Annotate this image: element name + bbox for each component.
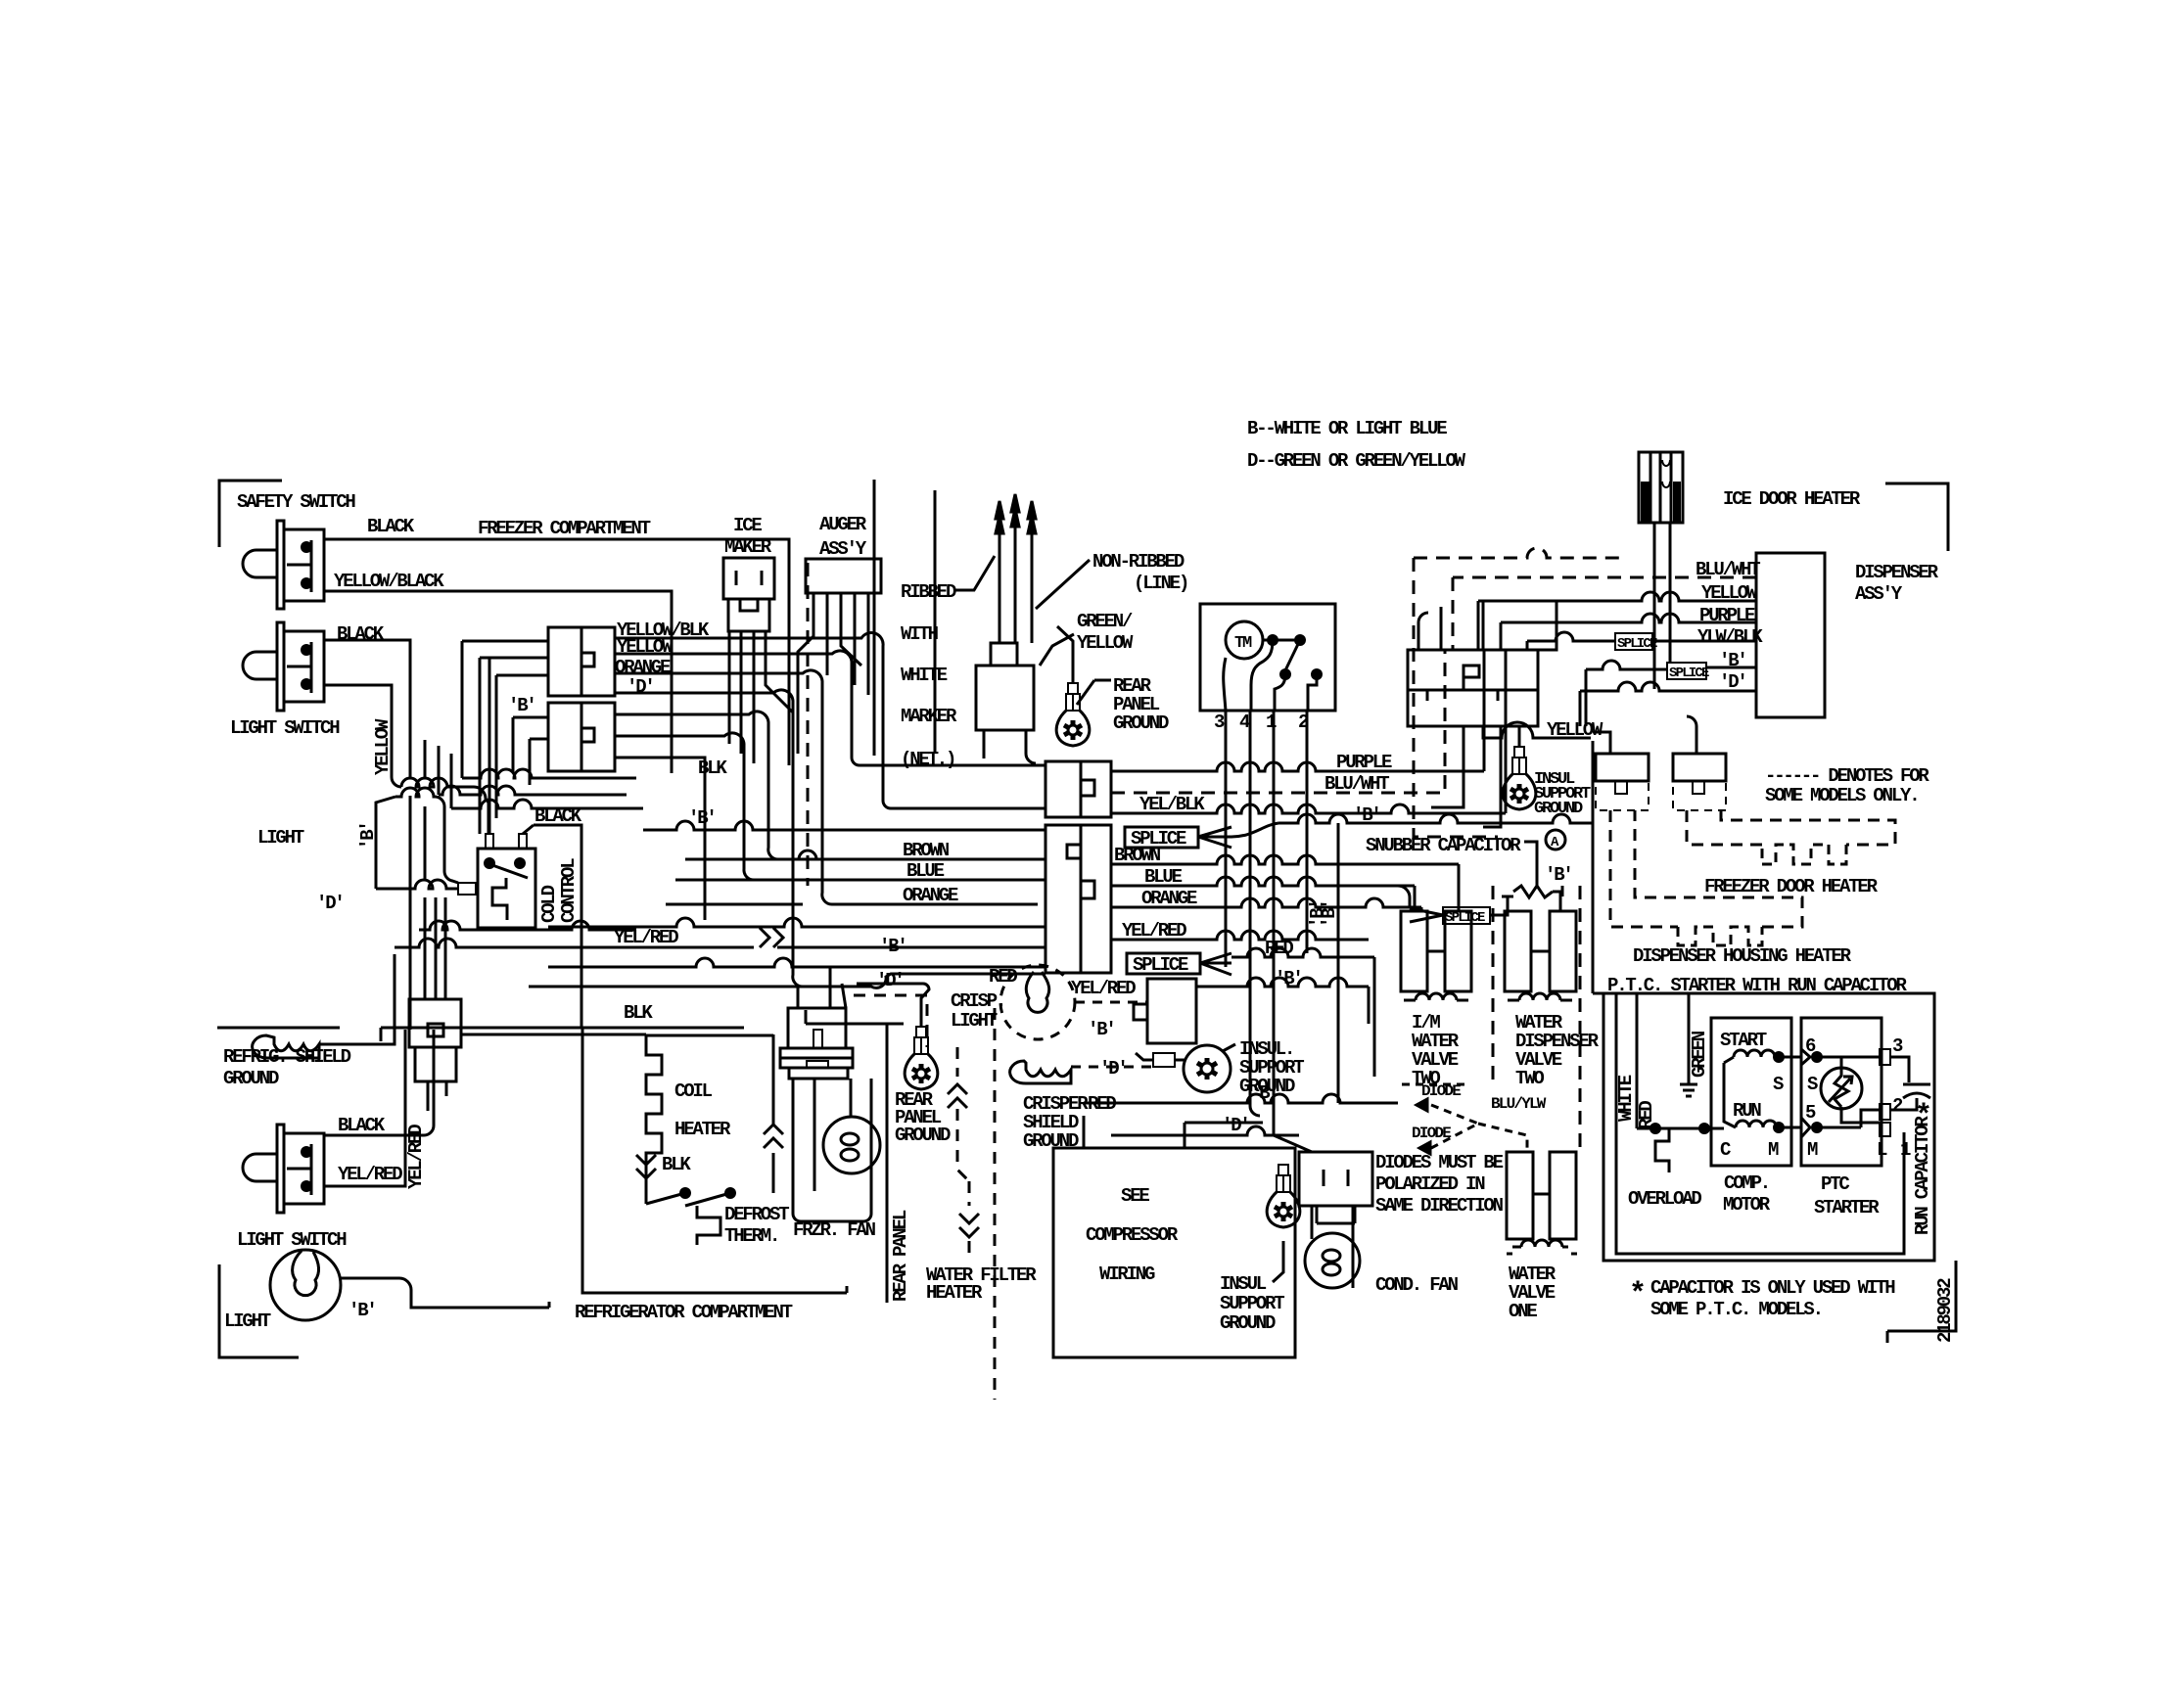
label GREEN (vertical) (1689, 1031, 1710, 1078)
label 6 (1805, 1035, 1816, 1057)
dashed dispenser loop (1414, 548, 1625, 837)
label RED (vertical ptc) (1636, 1101, 1657, 1129)
center connector upper (1046, 761, 1111, 817)
label INSUL (bottom) (1220, 1273, 1267, 1295)
label RUN (1733, 1100, 1761, 1122)
svg-text:BLACK: BLACK (337, 623, 385, 645)
svg-text:'D': 'D' (627, 676, 654, 698)
label GROUND (refrig shield) (223, 1068, 279, 1089)
svg-text:ORANGE: ORANGE (903, 885, 958, 906)
label YEL/RED (left) (614, 927, 678, 948)
crisp connector (1134, 979, 1196, 1043)
svg-text:TM: TM (1234, 634, 1252, 653)
label BLACK (light switch) (337, 623, 385, 645)
wire connector C to coil heater (461, 1034, 646, 1036)
svg-text:------ DENOTES FOR: ------ DENOTES FOR (1765, 765, 1929, 787)
top center connector wires (984, 730, 1036, 763)
wire BLUE right (1111, 877, 1415, 911)
label BROWN (right) (1114, 845, 1161, 866)
svg-text:COMPRESSOR: COMPRESSOR (1086, 1224, 1179, 1246)
insul support ground (center) (1136, 1044, 1235, 1092)
svg-text:BLK: BLK (662, 1154, 691, 1175)
right connector top wires (1418, 607, 1441, 650)
TM circle (1226, 621, 1263, 659)
label SEE (1121, 1185, 1149, 1207)
svg-text:GROUND: GROUND (223, 1068, 279, 1089)
wire 'B' to dispenser (1586, 661, 1756, 669)
i/m water valve two (1401, 911, 1471, 1000)
wire yellow right mid (1483, 722, 1591, 747)
svg-text:BLACK: BLACK (338, 1115, 386, 1136)
label GROUND (rpg1) (1113, 712, 1169, 734)
svg-text:YEL/RED: YEL/RED (1122, 920, 1186, 942)
run capacitor (1890, 1057, 1930, 1110)
wire YELLOW run (615, 651, 1046, 765)
svg-text:COMP.: COMP. (1724, 1172, 1769, 1194)
wire PURPLE to dispenser (1501, 614, 1756, 650)
label 'D' (left area) (316, 893, 344, 914)
wire PURPLE run (1111, 650, 1484, 771)
svg-text:YELLOW: YELLOW (1077, 632, 1134, 654)
label SHIELD (1023, 1112, 1079, 1133)
svg-text:'D': 'D' (316, 893, 344, 914)
label STARTER (1814, 1197, 1880, 1218)
label COMP. (1724, 1172, 1769, 1194)
label S (ptc) (1807, 1074, 1818, 1095)
label NON-RIBBED (1092, 551, 1185, 573)
svg-text:TWO: TWO (1515, 1068, 1544, 1089)
svg-text:HEATER: HEATER (926, 1282, 983, 1304)
auger wires (798, 593, 868, 754)
svg-text:DIODES MUST BE: DIODES MUST BE (1375, 1152, 1504, 1173)
label MOTOR (1723, 1194, 1771, 1216)
svg-text:REAR PANEL: REAR PANEL (890, 1210, 911, 1302)
svg-text:COIL: COIL (674, 1080, 713, 1102)
svg-text:BLUE: BLUE (906, 860, 945, 882)
label MAKER (724, 536, 772, 558)
right connector main (1408, 650, 1538, 726)
rear panel line (878, 1024, 904, 1303)
ptc thermistor (1821, 1057, 1882, 1123)
svg-text:INSUL: INSUL (1220, 1273, 1267, 1295)
wire stubs into connector 1 (462, 641, 548, 834)
label ASS'Y (819, 538, 867, 560)
label 'B' (vertical, left) (357, 822, 379, 850)
svg-text:WHITE: WHITE (901, 665, 948, 686)
label COMPRESSOR (1086, 1224, 1179, 1246)
wire to splice5 (1398, 886, 1508, 915)
label LIGHT SWITCH (refrigerator) (237, 1229, 347, 1251)
svg-text:LIGHT: LIGHT (257, 827, 304, 849)
svg-text:(LINE): (LINE) (1134, 573, 1187, 594)
label MARKER (901, 706, 957, 727)
svg-text:REFRIGERATOR COMPARTMENT: REFRIGERATOR COMPARTMENT (575, 1302, 793, 1323)
label M (ptc) (1807, 1139, 1818, 1161)
label 'B' (crisp below) (1088, 1019, 1115, 1040)
wire 'D' dashed to insul (1071, 1066, 1153, 1069)
label BLACK (safety switch) (367, 516, 415, 537)
label REAR PANEL (vertical) (890, 1210, 911, 1302)
label 2 (1892, 1095, 1903, 1117)
wire 'D' to dispenser (1580, 682, 1756, 691)
TM timer box (1200, 604, 1335, 711)
label SNUBBER CAPACITOR (1366, 835, 1521, 856)
label PANEL (rpg1) (1113, 694, 1160, 715)
svg-text:DISPENSER HOUSING HEATER: DISPENSER HOUSING HEATER (1633, 945, 1852, 967)
svg-text:HEATER: HEATER (674, 1119, 731, 1140)
label DEFROST (724, 1204, 789, 1225)
label PURPLE (dispenser) (1699, 605, 1755, 626)
label ICE (733, 515, 762, 536)
ice maker box (723, 558, 774, 631)
svg-text:WHITE: WHITE (1615, 1075, 1637, 1122)
label 2189032 (vertical) (1934, 1278, 1956, 1343)
label BLU/WHT (1324, 773, 1389, 795)
label BLU/WHT (dispenser) (1696, 559, 1760, 580)
label COLD CONTROL (vertical) (538, 858, 580, 923)
coil heater meander (646, 1034, 773, 1204)
label SUPPORT (bottom) (1220, 1293, 1284, 1314)
bracket 2189032 (1887, 1261, 1956, 1343)
label DISPENSER HOUSING HEATER (1633, 945, 1852, 967)
label RIBBED (901, 581, 956, 603)
splice box 2 (1127, 953, 1200, 976)
svg-text:FREEZER DOOR HEATER: FREEZER DOOR HEATER (1704, 876, 1879, 897)
wire BROWN right (1111, 855, 1459, 911)
svg-text:YEL/RED: YEL/RED (405, 1125, 427, 1189)
insul support ground (bottom) (1267, 1165, 1300, 1227)
dashed vertical right of water filter (994, 1008, 997, 1400)
coil heater arrows (636, 1125, 783, 1178)
wire from light switch lower contact (324, 685, 392, 729)
refrig shield ground clip (253, 1035, 319, 1058)
svg-text:AUGER: AUGER (819, 514, 867, 535)
svg-text:LIGHT SWITCH: LIGHT SWITCH (230, 717, 340, 739)
wire yellow riser (392, 729, 488, 834)
wires above right connectors (1593, 716, 1696, 754)
legend line B (1247, 418, 1447, 439)
svg-text:ORANGE: ORANGE (1141, 888, 1197, 909)
svg-text:START: START (1720, 1030, 1767, 1051)
wire 'B' from splice1 (1231, 814, 1593, 837)
label BLK (coil) (624, 1002, 653, 1024)
ptc inner border (1616, 1006, 1904, 1254)
label PTC (1821, 1173, 1849, 1195)
frzr fan connector (780, 1008, 853, 1079)
svg-text:BROWN: BROWN (1114, 845, 1161, 866)
svg-text:SPLICE: SPLICE (1669, 666, 1709, 681)
wire to rear panel ground 1 (1057, 626, 1073, 683)
label BLK (coil bottom) (662, 1154, 691, 1175)
label YEL/RED (right) (1122, 920, 1186, 942)
label 'D' (center2) (1099, 1058, 1127, 1080)
svg-text:D--GREEN OR GREEN/YELLOW: D--GREEN OR GREEN/YELLOW (1247, 450, 1466, 472)
label DENOTES FOR (1765, 765, 1929, 787)
wire crisp 'B' right (1196, 978, 1369, 1024)
splice 5 arrows (1410, 908, 1443, 922)
wire chevron right (center) (760, 928, 783, 947)
label 'B' (lower mid) (1250, 1082, 1278, 1104)
splice 1 arrows (1198, 827, 1231, 848)
svg-text:YELLOW/BLACK: YELLOW/BLACK (334, 571, 444, 592)
svg-text:GREEN: GREEN (1689, 1031, 1710, 1078)
svg-text:BLU/WHT: BLU/WHT (1324, 773, 1389, 795)
wire BLACK cold control (534, 825, 581, 1028)
label 'D' (lower mid) (1222, 1115, 1249, 1136)
wire ORANGE right (1111, 898, 1421, 911)
wire BLU/WHT to dispenser (1453, 577, 1756, 650)
svg-text:LIGHT: LIGHT (951, 1010, 998, 1032)
wire to rear panel ground 2 (857, 984, 929, 1027)
top center connector (976, 643, 1034, 730)
label ORANGE (connector) (615, 657, 671, 678)
svg-text:NON-RIBBED: NON-RIBBED (1092, 551, 1185, 573)
splice box 1 (1125, 827, 1198, 850)
ice door heater plug (1639, 452, 1683, 689)
svg-text:POLARIZED IN: POLARIZED IN (1375, 1173, 1485, 1195)
label 'B' (center) (879, 936, 906, 957)
label SAFETY SWITCH (237, 491, 355, 513)
label RED (center) (989, 966, 1017, 988)
wire YEL/BLK run (1111, 650, 1506, 813)
dispenser assy box (1756, 553, 1825, 717)
label COND. FAN (1375, 1274, 1459, 1296)
comp motor box (1711, 1018, 1791, 1166)
svg-text:RIBBED: RIBBED (901, 581, 956, 603)
wire vertical x434 (424, 740, 427, 999)
label L (ptc) (1877, 1139, 1887, 1161)
freezer connector 2 (548, 703, 615, 771)
label BLUE (left) (906, 860, 945, 882)
label WITH (901, 623, 939, 645)
label WATER (wv1) (1509, 1264, 1557, 1285)
svg-text:ASS'Y: ASS'Y (819, 538, 867, 560)
label POLARIZED IN (1375, 1173, 1485, 1195)
svg-text:ICE DOOR HEATER: ICE DOOR HEATER (1723, 488, 1861, 510)
wire y975 run (395, 939, 548, 947)
svg-text:'B': 'B' (879, 936, 906, 957)
diode 1 (1402, 1082, 1464, 1111)
wire RED right (1231, 948, 1374, 1077)
label ASS'Y (dispenser) (1855, 583, 1903, 605)
label 'D' (center) (876, 970, 904, 991)
light (refrigerator) bulb (270, 1250, 341, 1320)
label ORANGE (left) (903, 885, 958, 906)
label REAR (rpg2) (895, 1089, 934, 1111)
label INSUL (right) (1534, 770, 1575, 789)
wire YELLOW to dispenser (1478, 592, 1756, 650)
label VALVE (wv1) (1509, 1282, 1556, 1304)
snubber capacitor component (1502, 886, 1560, 911)
right lower connector B (1673, 754, 1726, 810)
svg-text:WITH: WITH (901, 623, 939, 645)
clip riser (319, 954, 395, 1044)
svg-text:REFRIG. SHIELD: REFRIG. SHIELD (223, 1046, 351, 1068)
label BLACK (cold control) (534, 805, 582, 827)
splice box 3 (ylw/blk) (1615, 633, 1657, 652)
label M (comp) (1768, 1139, 1779, 1161)
center bundle wires left (529, 821, 1046, 988)
svg-text:SOME MODELS ONLY.: SOME MODELS ONLY. (1765, 785, 1918, 806)
svg-text:2189032: 2189032 (1934, 1278, 1956, 1343)
TM pin labels (1214, 712, 1309, 733)
wire BLACK from light switch (324, 640, 410, 685)
svg-text:SPLICE: SPLICE (1617, 636, 1657, 652)
svg-text:BLK: BLK (698, 758, 727, 779)
frzr fan motor (793, 1079, 880, 1221)
svg-text:PTC: PTC (1821, 1173, 1849, 1195)
svg-text:FREEZER COMPARTMENT: FREEZER COMPARTMENT (478, 518, 651, 539)
corner bracket bottom-left (219, 1264, 299, 1357)
svg-text:ONE: ONE (1509, 1301, 1537, 1322)
frzr fan wires top (798, 967, 923, 1008)
label 'B' vert (near splice5) (1307, 900, 1328, 928)
wire long vertical right (1592, 741, 1595, 993)
ptc terminal pins (1861, 1049, 1890, 1136)
label 5 (1805, 1102, 1816, 1124)
wire BLACK from safety switch (324, 539, 789, 765)
svg-text:'B': 'B' (1275, 968, 1302, 989)
label WATER FILTER (926, 1264, 1037, 1286)
svg-text:BROWN: BROWN (903, 840, 950, 861)
label LIGHT (bottom) (224, 1310, 271, 1332)
cond fan (1305, 1206, 1360, 1288)
wire to cold control pins (489, 658, 534, 834)
svg-text:SNUBBER CAPACITOR: SNUBBER CAPACITOR (1366, 835, 1521, 856)
svg-text:RUN CAPACITOR: RUN CAPACITOR (1912, 1116, 1933, 1235)
diode 2 (1412, 1105, 1527, 1154)
svg-text:OVERLOAD: OVERLOAD (1628, 1188, 1701, 1210)
label WATER (wd2) (1515, 1012, 1563, 1034)
svg-text:'B': 'B' (1307, 900, 1328, 928)
svg-text:YEL/RED: YEL/RED (1071, 978, 1136, 999)
label RED (lower center) (1088, 1093, 1116, 1115)
svg-text:BLUE: BLUE (1144, 866, 1183, 888)
label 'B' (stub area) (508, 695, 535, 716)
label GROUND (insul center) (1239, 1076, 1295, 1097)
svg-text:GROUND: GROUND (1113, 712, 1169, 734)
light switch (refrigerator) (243, 1125, 324, 1213)
wire ORANGE run (615, 670, 1038, 904)
label SOME P.T.C. MODELS. (1650, 1299, 1822, 1320)
label GROUND (bottom) (1220, 1312, 1276, 1334)
label P.T.C. STARTER WITH RUN CAPACITOR (1607, 975, 1907, 996)
svg-text:'B': 'B' (1353, 804, 1380, 826)
label REAR (rpg1) (1113, 675, 1152, 697)
dashed box water dispenser valve (1493, 886, 1580, 1155)
label BLACK (refrig light switch) (338, 1115, 386, 1136)
label START (1720, 1030, 1767, 1051)
dispenser housing heater loop (1610, 810, 1802, 945)
svg-text:'B': 'B' (1088, 1019, 1115, 1040)
wire YELLOW/BLACK from safety switch (324, 591, 672, 773)
label CRISPER (1023, 1093, 1089, 1115)
svg-text:BLACK: BLACK (367, 516, 415, 537)
circled A node (1546, 830, 1565, 850)
label DISPENSER (1855, 562, 1939, 583)
label 'B' (bottom left) (349, 1300, 376, 1321)
label (LINE) (1134, 573, 1187, 594)
label BROWN (left) (903, 840, 950, 861)
svg-text:CONTROL: CONTROL (558, 858, 580, 923)
leader snubber (1524, 842, 1537, 889)
wire y950 run (419, 921, 636, 930)
label PURPLE (1336, 752, 1392, 773)
label FRZR. FAN (793, 1219, 876, 1241)
svg-text:LIGHT: LIGHT (224, 1310, 271, 1332)
label 'D' (connector) (627, 676, 654, 698)
cold control pins (486, 834, 527, 849)
wire 'B' lower run (1084, 1094, 1398, 1103)
label DIODES MUST BE (1375, 1152, 1504, 1173)
freezer door heater loop (1687, 810, 1895, 864)
label LIGHT (freezer) (257, 827, 304, 849)
start coil (1724, 1050, 1802, 1127)
legend line D (1247, 450, 1466, 472)
label 'D' (dispenser) (1719, 671, 1746, 693)
svg-text:RED: RED (989, 966, 1017, 988)
label WHITE (901, 665, 948, 686)
label YELLOW/BLACK (334, 571, 444, 592)
corner bracket ice door heater (1885, 483, 1948, 551)
wire stubs into connector 2 (513, 717, 548, 785)
svg-text:DEFROST: DEFROST (724, 1204, 789, 1225)
label GREEN/ (1077, 611, 1133, 632)
label 3 (1892, 1035, 1903, 1057)
ptc contacts (1801, 1049, 1882, 1137)
center connector lower (1046, 825, 1111, 973)
label SOME MODELS ONLY. (1765, 785, 1918, 806)
label THERM. (724, 1225, 778, 1247)
label 'B' vertical (below TM) (1319, 900, 1340, 928)
compartment divider line (217, 1010, 890, 1041)
refrigerator compartment boundary (582, 1028, 847, 1293)
svg-text:CRISP.: CRISP. (951, 990, 1004, 1012)
label REFRIG. SHIELD (223, 1046, 351, 1068)
label * (run cap) (1915, 1100, 1932, 1133)
label 'B' (dispenser) (1719, 650, 1746, 671)
svg-text:MARKER: MARKER (901, 706, 957, 727)
label YELLOW (green/yellow) (1077, 632, 1134, 654)
ribbed arrow wires (996, 494, 1036, 643)
svg-text:'D': 'D' (1222, 1115, 1249, 1136)
label FREEZER COMPARTMENT (478, 518, 651, 539)
wire 'D' run (615, 690, 871, 987)
label VALVE (i/m) (1412, 1049, 1459, 1071)
label ONE (wv1) (1509, 1301, 1537, 1322)
water dispenser valve two (1505, 911, 1576, 1000)
label WATER (i/m) (1412, 1031, 1460, 1052)
crisper shield ground clip (1010, 1061, 1071, 1083)
auger assy box (806, 559, 881, 593)
label BLK (freezer) (698, 758, 727, 779)
svg-text:GROUND: GROUND (1220, 1312, 1276, 1334)
dashed wire to crisp area (854, 995, 927, 1047)
leader RIBBED (954, 556, 995, 590)
water valve one (1507, 1152, 1578, 1254)
label SUPPORT (right) (1534, 785, 1591, 804)
label LIGHT (crisp) (951, 1010, 998, 1032)
leader REAR PANEL GROUND 1 (1077, 680, 1111, 705)
label YELLOW (right mid) (1547, 719, 1603, 741)
label C (comp) (1720, 1139, 1731, 1161)
svg-text:ICE: ICE (733, 515, 762, 536)
svg-text:SPLICE: SPLICE (1133, 954, 1188, 976)
wires into compressor box (1084, 1116, 1263, 1148)
svg-text:GREEN/: GREEN/ (1077, 611, 1133, 632)
wire yel/red crisp (1075, 1001, 1147, 1004)
svg-text:SAFETY SWITCH: SAFETY SWITCH (237, 491, 355, 513)
